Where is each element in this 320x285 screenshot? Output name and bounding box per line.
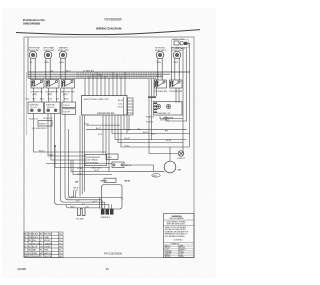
oven lamp circle — [178, 151, 184, 157]
right cluster box (indicator lights) — [154, 102, 183, 116]
oven light socket — [184, 42, 187, 45]
fan stub top — [169, 147, 171, 161]
wire to oven lamp — [149, 98, 178, 154]
right vertical rails — [172, 43, 190, 153]
right connector pins column — [154, 103, 157, 114]
warning divider 1 — [164, 219, 195, 221]
wire bundle below EOC left — [80, 116, 84, 197]
right cluster lamp centers — [157, 105, 159, 107]
EOC top stubs — [85, 72, 125, 96]
warning divider 3 — [164, 241, 195, 243]
terminal block — [101, 209, 114, 215]
LF pilot switch assembly — [28, 102, 44, 114]
TOD clock box — [85, 155, 107, 166]
long drop wires to bottom turns — [55, 88, 123, 208]
warmer switch — [62, 80, 75, 89]
RF pilot switch assembly — [45, 102, 61, 114]
wire LR leads — [46, 58, 50, 80]
main bus wire L2 — [28, 73, 170, 75]
bake element symbol — [78, 208, 86, 216]
relay block lower — [62, 109, 76, 115]
main bus wire N — [28, 75, 163, 77]
warning legend rows — [165, 244, 187, 258]
border frame (diagram outline) — [24, 37, 194, 258]
rounded loop box — [102, 185, 123, 210]
wire latch to right — [124, 165, 154, 172]
main bus wire 4 — [28, 77, 156, 79]
right connector drops — [149, 79, 157, 96]
surface unit center element — [59, 51, 67, 59]
wires below EOC going down — [103, 116, 190, 172]
wire mid right upper short — [86, 124, 120, 126]
wire mid right upper long — [86, 128, 187, 130]
mid horizontal wire 4 — [46, 163, 112, 165]
left long wire 3 — [51, 114, 85, 161]
sensor plug box — [106, 154, 118, 160]
relay block upper — [62, 102, 76, 108]
wire inner left vertical — [25, 72, 27, 135]
wire oval label — [152, 174, 160, 178]
LR switch — [46, 80, 59, 89]
warning box — [164, 214, 195, 258]
bus harness hatch — [76, 72, 162, 78]
header rule — [16, 30, 200, 35]
mid horizontals left bundle — [55, 146, 112, 175]
oven light switch box — [174, 41, 179, 45]
warning legend divider vertical — [177, 245, 179, 258]
surface unit LF element — [29, 51, 37, 59]
door latch switch — [112, 162, 124, 168]
publication number text — [23, 18, 46, 26]
oven light lamp — [180, 42, 183, 45]
warning legend row lines — [164, 245, 195, 256]
right connector bar — [148, 96, 156, 98]
surface unit LR element — [44, 51, 52, 59]
wires switch bottoms to pilot row — [34, 88, 73, 102]
RF switch — [155, 80, 167, 88]
left long wire with jog — [34, 114, 107, 153]
terminal block stubs — [99, 198, 122, 209]
RR switch — [170, 80, 183, 88]
main bus wire L1 — [28, 71, 190, 73]
wire right drop rail — [151, 98, 153, 140]
legend color table — [24, 232, 63, 258]
mid connector dark labels — [77, 168, 83, 176]
warning paragraph — [165, 226, 189, 238]
warning divider 2 — [164, 224, 195, 226]
electronic oven control box — [82, 96, 128, 116]
wire color labels row — [25, 99, 68, 101]
slanted wire labels bottom runs — [67, 196, 97, 206]
convection fan motor circle — [164, 161, 176, 173]
lower component row box — [104, 178, 116, 182]
legend table text — [25, 233, 63, 258]
left long wire 2 — [48, 114, 85, 157]
surface indicator light box — [38, 121, 52, 127]
oven light dashed enclosure — [172, 40, 189, 48]
wire RR leads — [175, 58, 179, 80]
surface unit RR element — [173, 51, 181, 59]
wire center leads — [61, 58, 65, 80]
node junction — [54, 145, 56, 147]
right cluster wires — [160, 116, 187, 121]
EOC right connector box — [128, 98, 134, 115]
wire LF leads — [31, 58, 35, 80]
wire RF leads — [158, 58, 162, 80]
EOC inner vertical — [123, 97, 125, 115]
LF switch — [31, 80, 44, 89]
surface unit RF element — [156, 51, 164, 59]
wire left drop from border top — [27, 37, 29, 78]
wire oven light to right bus — [187, 42, 190, 44]
verticals above runs — [74, 191, 76, 198]
